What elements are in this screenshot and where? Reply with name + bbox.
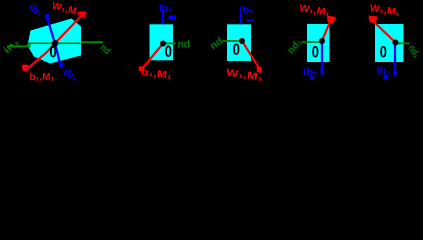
wire net2 right (81, 41, 103, 43)
svg-text:nd: nd (178, 40, 191, 51)
label green right (98, 42, 113, 57)
wire red top-right U4 (322, 20, 331, 42)
label red bottom U2 (140, 67, 172, 82)
svg-text:0: 0 (380, 42, 387, 61)
label red bottom U3 (225, 68, 263, 84)
pin arrow blue top (45, 14, 50, 20)
wire net1 left (7, 45, 31, 47)
wire blue top U2 (162, 10, 164, 24)
wire net1 internal horizontal (28, 42, 81, 44)
wire red bottom-left U2 (142, 44, 163, 70)
junction node dot U4 (319, 38, 325, 44)
pin arrow red U5 (369, 16, 378, 24)
svg-text:0: 0 (50, 43, 57, 62)
label green left (2, 37, 22, 57)
junction node dot U1 (52, 40, 59, 47)
cell body U5 (375, 24, 404, 62)
pin arrow red top (79, 12, 87, 19)
label blue bottom-right (61, 67, 79, 84)
wire green left U3 (222, 40, 242, 42)
label red top U5 (369, 3, 401, 19)
cell body U1 (28, 19, 82, 64)
pin arrow red U4 (327, 16, 336, 25)
label red top U4 (298, 3, 330, 19)
wire blue bottom U4 (321, 41, 323, 72)
label green left U4 (286, 37, 305, 56)
pin arrow blue U4 (320, 71, 325, 77)
wire red top-left U5 (374, 22, 396, 43)
junction node dot U5 (393, 40, 399, 46)
wire green right U2 (163, 42, 176, 44)
cell body U4 (307, 24, 330, 62)
junction node dot U3 (239, 38, 245, 44)
svg-text:ib₁: ib₁ (159, 4, 173, 15)
cell body U3 (227, 24, 251, 61)
label blue top-left (26, 2, 45, 20)
svg-text:b₁,M₁: b₁,M₁ (30, 72, 55, 83)
wire green left U4 (302, 41, 323, 43)
pin arrow blue U5 (393, 72, 398, 78)
junction node dot U2 (160, 41, 166, 47)
svg-text:ib₁: ib₁ (239, 5, 254, 16)
svg-text:0: 0 (312, 43, 319, 62)
label green left U3 (208, 36, 225, 52)
wire net R red diagonal (26, 14, 84, 71)
wire blue bottom U5 (394, 43, 396, 73)
pin arrow red U3 (257, 67, 263, 74)
pin arrow red bottom (22, 65, 29, 72)
pin arrow red U2 (139, 66, 145, 72)
wire red bottom-right U3 (242, 41, 260, 70)
wire green right U5 (396, 42, 410, 44)
pin arrow blue bottom (59, 62, 64, 68)
label red top-right (51, 1, 82, 19)
svg-text:0: 0 (165, 42, 172, 61)
label green right U5 (405, 43, 421, 60)
cell body U2 (150, 24, 174, 60)
wire blue top U3 (240, 13, 242, 24)
wire net B blue diagonal (47, 18, 61, 66)
svg-text:0: 0 (233, 40, 240, 59)
